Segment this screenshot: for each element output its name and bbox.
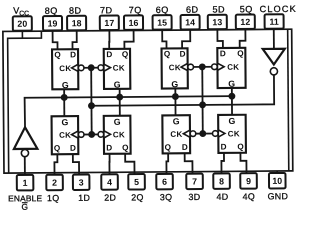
wire bottom pin x=248 to FF terminal x=240.1 — [240, 152, 246, 175]
pin box 13 (top) — [208, 15, 227, 30]
CK dynamic-input symbol of flip-flop bit 8 (pins 19,18) — [72, 64, 84, 71]
junction dot CK bottom x=91.5 — [88, 131, 95, 138]
svg-text:CLOCK: CLOCK — [260, 4, 297, 14]
input bubble of enable buffer U2 — [21, 149, 28, 156]
svg-text:5: 5 — [134, 177, 139, 187]
svg-text:Q: Q — [54, 50, 61, 59]
svg-text:16: 16 — [129, 18, 139, 28]
shared G input stub vertical x=175.5 — [174, 87, 176, 116]
inverter U1 clock (triangle) — [263, 49, 285, 65]
wire enable buffer output up to G bus — [25, 96, 233, 128]
svg-text:Q: Q — [237, 49, 244, 58]
flip-flop bit 8 (pins 19,18) — [52, 49, 78, 90]
svg-text:D: D — [220, 49, 226, 58]
svg-text:CK: CK — [227, 63, 239, 72]
svg-text:CK: CK — [113, 130, 125, 139]
svg-text:8D: 8D — [69, 6, 82, 16]
pin box 5 (bottom) — [128, 174, 145, 190]
svg-text:3D: 3D — [188, 192, 200, 202]
svg-text:1: 1 — [23, 178, 28, 188]
wire pin 11 CLOCK down to inverter — [273, 28, 275, 50]
svg-text:GND: GND — [268, 191, 289, 201]
flip-flop bit 2 (pins 4,5) — [104, 116, 131, 154]
inner border line right side — [288, 30, 289, 171]
pin box 19 (top) — [43, 16, 62, 31]
svg-text:7D: 7D — [100, 5, 113, 15]
top row CK wire between FF6t and FF5t — [188, 66, 218, 68]
svg-text:CK: CK — [169, 63, 181, 72]
wire bottom pin x=194 to FF terminal x=184.3 — [185, 152, 193, 175]
svg-text:17: 17 — [104, 18, 114, 28]
stub pin 10 GND to outline — [276, 171, 278, 174]
pin box 11 (top) — [265, 14, 284, 29]
wire top pin x=190.8 to FF terminal x=182.6 — [182, 29, 190, 50]
svg-text:5Q: 5Q — [240, 4, 253, 14]
clock interconnect vertical x=91.5 — [90, 68, 93, 135]
wire bottom pin x=109 to FF terminal x=109.2 — [108, 153, 110, 176]
svg-text:D: D — [180, 50, 186, 59]
svg-text:CK: CK — [59, 131, 71, 140]
pin box 20 (top) — [13, 16, 32, 31]
pin box 6 (bottom) — [156, 174, 173, 190]
wire top pin x=162.8 to FF terminal x=167.0 — [162, 29, 166, 50]
bottom row CK wire between FF3b and FF4b — [190, 132, 218, 134]
junction dot CK top x=202.6 — [199, 63, 206, 70]
wire bottom pin x=80.6 to FF terminal x=72.5 — [73, 153, 79, 176]
wire top pin x=110 to FF terminal x=109.7 — [108, 29, 110, 50]
svg-text:G: G — [173, 116, 180, 126]
svg-text:G: G — [114, 117, 121, 127]
svg-text:Q: Q — [122, 143, 129, 152]
stub below pin 20 VCC — [21, 30, 23, 38]
CK dynamic-input symbol of flip-flop bit 3 (pins 6,7) — [183, 130, 195, 137]
svg-text:CK: CK — [59, 64, 71, 73]
svg-text:G: G — [228, 116, 235, 126]
wire top pin x=53.2 to FF terminal x=58.0 — [53, 30, 58, 51]
shared G input stub vertical x=232.0 — [231, 87, 233, 116]
svg-text:Q: Q — [54, 144, 61, 153]
wire bottom pin x=221 to FF terminal x=223.6 — [221, 152, 224, 175]
svg-text:G: G — [228, 79, 235, 89]
CK dynamic-input symbol of flip-flop bit 6 (pins 15,14) — [181, 63, 193, 70]
IC package outline (DIP-20 body) — [3, 29, 293, 173]
svg-text:8Q: 8Q — [45, 6, 58, 16]
svg-text:D: D — [106, 50, 112, 59]
svg-text:D: D — [182, 143, 188, 152]
top row CK wire between FF8t and FF7t — [78, 67, 104, 69]
svg-text:G: G — [171, 79, 178, 89]
svg-text:5D: 5D — [212, 4, 225, 14]
wire bottom pin x=54 to FF terminal x=57.0 — [54, 153, 57, 176]
pin box 10 (bottom) — [269, 173, 286, 189]
shared G input stub vertical x=119.8 — [119, 88, 121, 117]
svg-text:7: 7 — [192, 177, 197, 187]
wire top pin x=134.2 to FF terminal x=124.9 — [124, 29, 133, 50]
svg-text:2D: 2D — [104, 193, 116, 203]
svg-text:11: 11 — [269, 17, 278, 27]
svg-text:8: 8 — [219, 176, 224, 186]
svg-text:4: 4 — [107, 177, 112, 187]
flip-flop bit 5 (pins 13,12) — [217, 48, 245, 89]
svg-text:1Q: 1Q — [47, 193, 60, 203]
svg-text:Q: Q — [164, 50, 171, 59]
svg-text:G: G — [61, 117, 68, 127]
wire top pin x=77.3 to FF terminal x=73.0 — [72, 30, 76, 51]
pin box 17 (top) — [100, 16, 119, 31]
junction dot G bus x=64.3 — [61, 94, 68, 101]
svg-text:Q: Q — [237, 142, 244, 151]
wire pin 1 ENABLE up to buffer bubble — [24, 157, 26, 176]
shared G input stub vertical x=64.3 — [63, 88, 65, 117]
flip-flop bit 1 (pins 2,3) — [52, 116, 79, 154]
flip-flop bit 3 (pins 6,7) — [162, 115, 190, 153]
svg-text:20: 20 — [17, 19, 27, 29]
svg-text:15: 15 — [157, 18, 167, 28]
junction dot CK bus x=91.5 — [88, 102, 95, 109]
svg-text:19: 19 — [48, 18, 58, 28]
pin box 9 (bottom) — [240, 173, 257, 189]
svg-text:D: D — [106, 143, 112, 152]
flip-flop bit 6 (pins 15,14) — [162, 48, 188, 89]
pin box 1 (bottom) — [17, 175, 34, 191]
svg-text:3Q: 3Q — [160, 192, 173, 202]
svg-text:2: 2 — [52, 178, 57, 188]
junction dot CK top x=91.5 — [88, 64, 95, 71]
svg-text:4Q: 4Q — [243, 191, 256, 201]
pin box 12 (top) — [236, 14, 255, 29]
svg-text:Q: Q — [122, 50, 129, 59]
pin box 16 (top) — [124, 15, 143, 30]
wire top pin x=218 to FF terminal x=223.4 — [217, 28, 223, 49]
pin box 2 (bottom) — [46, 175, 63, 191]
svg-text:G: G — [62, 80, 69, 90]
svg-text:CK: CK — [170, 130, 182, 139]
svg-text:3: 3 — [79, 177, 84, 187]
pin box 7 (bottom) — [186, 174, 203, 190]
flip-flop bit 7 (pins 17,16) — [104, 49, 131, 90]
svg-text:18: 18 — [72, 18, 82, 28]
pin box 8 (bottom) — [213, 173, 230, 189]
svg-text:7Q: 7Q — [129, 5, 142, 15]
wire inverted clock down to CK bus — [91, 75, 274, 106]
CK dynamic-input symbol of flip-flop bit 5 (pins 13,12) — [212, 63, 224, 70]
junction dot CK bus x=202.6 — [199, 101, 206, 108]
bottom row CK wire between FF1b and FF2b — [78, 133, 104, 135]
svg-text:D: D — [70, 50, 76, 59]
enable buffer U2 (triangle) — [14, 127, 38, 149]
svg-text:14: 14 — [185, 17, 195, 27]
junction dot G bus x=119.8 — [116, 94, 123, 101]
svg-text:6D: 6D — [186, 5, 199, 15]
CK dynamic-input symbol of flip-flop bit 4 (pins 8,9) — [212, 130, 224, 137]
junction dot G bus x=232.0 — [228, 93, 235, 100]
svg-text:Q: Q — [165, 143, 172, 152]
svg-text:9: 9 — [246, 176, 251, 186]
pin box 3 (bottom) — [73, 174, 90, 190]
svg-text:CK: CK — [228, 129, 240, 138]
svg-text:G: G — [114, 80, 121, 90]
wire bottom pin x=136 to FF terminal x=124.8 — [125, 153, 134, 176]
clock interconnect vertical x=202.6 — [201, 67, 204, 134]
wire bottom pin x=164 to FF terminal x=167.8 — [166, 152, 168, 175]
svg-text:12: 12 — [240, 17, 250, 27]
CK dynamic-input symbol of flip-flop bit 1 (pins 2,3) — [72, 131, 84, 138]
svg-text:D: D — [70, 144, 76, 153]
wire top pin x=246 to FF terminal x=240.2 — [240, 28, 246, 49]
junction dot CK bottom x=202.6 — [199, 130, 206, 137]
svg-text:2Q: 2Q — [131, 192, 144, 202]
svg-text:6Q: 6Q — [156, 5, 169, 15]
junction dot G bus x=175.5 — [172, 93, 179, 100]
svg-text:6: 6 — [162, 177, 167, 187]
pin box 4 (bottom) — [101, 174, 118, 190]
svg-text:4D: 4D — [216, 192, 228, 202]
pin box 15 (top) — [153, 15, 172, 30]
pin box 14 (top) — [181, 15, 200, 30]
inner border line left side — [8, 31, 43, 173]
CK dynamic-input symbol of flip-flop bit 7 (pins 17,16) — [98, 64, 110, 71]
svg-text:CK: CK — [113, 64, 125, 73]
flip-flop bit 4 (pins 8,9) — [218, 115, 246, 153]
pin box 18 (top) — [67, 16, 86, 31]
svg-text:D: D — [221, 142, 227, 151]
svg-text:1D: 1D — [78, 193, 90, 203]
inverter U1 output bubble — [270, 68, 277, 75]
svg-text:13: 13 — [212, 17, 222, 27]
svg-text:10: 10 — [272, 176, 282, 186]
CK dynamic-input symbol of flip-flop bit 2 (pins 4,5) — [98, 131, 110, 138]
